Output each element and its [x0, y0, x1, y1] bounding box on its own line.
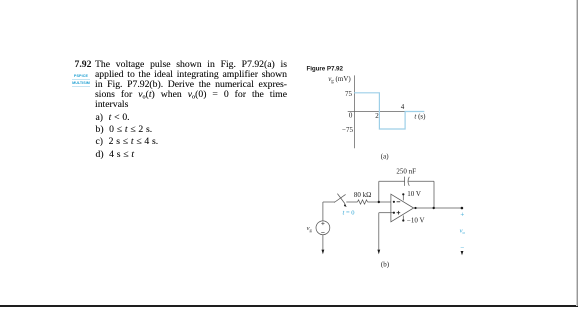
svg-text:0: 0 — [349, 112, 353, 120]
svg-text:+: + — [460, 211, 464, 219]
svg-text:(a): (a) — [381, 152, 389, 160]
svg-text:vo: vo — [460, 228, 466, 235]
svg-text:80 kΩ: 80 kΩ — [354, 191, 371, 199]
svg-text:t (s): t (s) — [414, 113, 426, 121]
svg-text:−10 V: −10 V — [407, 216, 425, 224]
svg-text:10 V: 10 V — [407, 190, 421, 198]
svg-text:250 nF: 250 nF — [396, 168, 416, 176]
svg-text:−75: −75 — [342, 126, 353, 134]
svg-text:(b): (b) — [381, 261, 390, 269]
svg-text:vg (mV): vg (mV) — [328, 75, 351, 84]
svg-text:t = 0: t = 0 — [343, 209, 355, 216]
svg-text:vg: vg — [307, 225, 313, 232]
svg-text:2: 2 — [375, 112, 379, 120]
svg-text:−: − — [460, 244, 464, 252]
svg-text:75: 75 — [345, 90, 353, 98]
svg-text:4: 4 — [401, 103, 405, 111]
svg-text:Figure P7.92: Figure P7.92 — [307, 66, 344, 73]
